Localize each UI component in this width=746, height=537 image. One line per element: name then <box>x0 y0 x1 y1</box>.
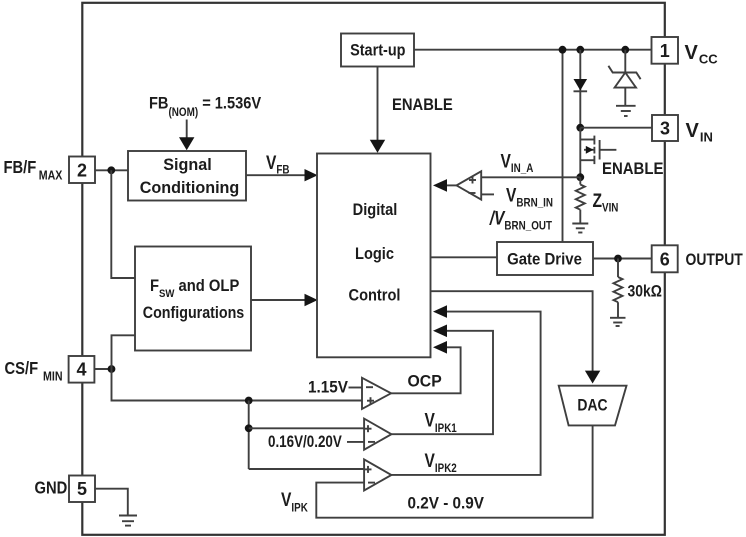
svg-text:GND: GND <box>35 478 68 498</box>
svg-text:30kΩ: 30kΩ <box>628 282 662 301</box>
ground below pin 5 <box>119 516 137 526</box>
node: dot VCC rail / gate drive supply <box>559 46 567 54</box>
wire: pin 3 horizontal <box>580 127 652 129</box>
label /VBRN_OUT <box>489 207 552 233</box>
label VIN_A <box>501 150 534 175</box>
label FB/FMAX <box>4 158 63 183</box>
Gate Drive block <box>497 242 593 275</box>
ground below 30k <box>610 318 626 326</box>
wire: pin4 branch up into FSW box <box>112 335 136 369</box>
svg-text:Signal: Signal <box>163 155 211 174</box>
op-amp U3 (VIPK1 comparator) <box>364 419 391 450</box>
label VIPK2 <box>425 449 457 475</box>
zener diode Z1 <box>608 66 640 105</box>
arrowhead into DLC right edge (VIN comparator) <box>433 179 447 192</box>
FSW and OLP Configurations block <box>135 247 251 351</box>
Digital Logic Control block <box>317 154 431 358</box>
svg-text:Conditioning: Conditioning <box>140 177 240 196</box>
svg-text:Start-up: Start-up <box>350 41 405 59</box>
label 0.16V/0.20V <box>268 432 343 451</box>
wire: DLC to Gate Drive <box>431 256 498 258</box>
arrowhead VIPK2 into DLC right edge <box>433 305 447 318</box>
svg-text:4: 4 <box>76 360 86 380</box>
node: dot pin4 junction <box>108 365 116 373</box>
arrowhead VIPK1 into DLC right edge <box>433 325 447 338</box>
node: dot output / 30k tap <box>614 255 622 263</box>
wire: CS branch down <box>248 401 250 470</box>
wire: pin5 to ground <box>95 489 128 516</box>
op-amp U4 (VIPK2 comparator) <box>364 459 391 490</box>
svg-text:DAC: DAC <box>577 396 607 415</box>
svg-text:OUTPUT: OUTPUT <box>686 251 744 270</box>
wire: diode branch vertical <box>579 50 581 128</box>
wire: comparator output into DLC <box>446 184 457 186</box>
pin 1 box <box>652 37 679 64</box>
wire: ENABLE vertical from Start-up to Digital Logic Control <box>377 67 379 142</box>
DAC block (trapezoid) <box>559 386 627 426</box>
label 30kOhm <box>628 282 662 301</box>
label OCP <box>408 372 442 391</box>
arrowhead ENABLE into DLC top <box>370 140 385 153</box>
wire: VCC top rail from Start-up to pin 1 <box>414 49 652 51</box>
label VIPK <box>281 489 308 515</box>
svg-text:Configurations: Configurations <box>143 304 245 322</box>
wire: 0.16V stub to VIPK1 - input <box>347 441 364 443</box>
outer IC boundary box <box>82 3 665 535</box>
label CS/FMIN <box>5 359 63 384</box>
label VCC <box>685 42 719 67</box>
resistor 30k <box>614 259 623 318</box>
wire: VBRN input stub <box>481 193 494 195</box>
svg-text:ENABLE: ENABLE <box>602 160 664 178</box>
arrowhead VFB into DLC left edge <box>305 169 318 181</box>
node: dot VCC rail / diode branch <box>576 46 584 54</box>
wire: FB(NOM) arrow stem <box>186 120 188 139</box>
wire: pin4 to junction <box>94 368 111 370</box>
wire: VIN_A sense line to comparator <box>481 176 580 178</box>
ground below ZVIN <box>572 224 588 233</box>
arrowhead FSW into DLC left edge <box>305 294 318 306</box>
svg-text:3: 3 <box>660 119 670 139</box>
node: dot pin2 junction <box>107 166 115 174</box>
transistor Q1 (high-voltage MOSFET) <box>580 128 616 178</box>
node: dot CS line junction 1 <box>245 397 253 405</box>
wire: VIPK2 output up into DLC <box>391 312 540 475</box>
wire: Gate Drive output to pin 6 <box>593 258 652 260</box>
arrowhead OCP into DLC right edge <box>433 341 447 354</box>
wire: CS branch to VIPK1 comparator <box>249 427 364 429</box>
pin 4 box <box>69 356 95 383</box>
svg-text:Digital: Digital <box>353 201 398 219</box>
wire: VIPK threshold line from DAC <box>316 425 592 517</box>
label FB(NOM) = 1.536V <box>149 95 261 120</box>
node: dot VCC rail / zener branch <box>621 46 629 54</box>
diode D1 (pointing down) <box>574 79 588 91</box>
label ENABLE (start-up) <box>392 96 453 114</box>
svg-text:ENABLE: ENABLE <box>392 96 453 114</box>
wire: pin2 branch down to FSW box <box>111 170 135 278</box>
op-amp U1 (VIN comparator, points left) <box>457 171 482 199</box>
svg-text:2: 2 <box>77 160 87 180</box>
label ENABLE (mosfet gate) <box>602 160 664 178</box>
label VIN <box>686 120 713 145</box>
wire: DLC to DAC <box>431 291 593 371</box>
wire: CS branch to VIPK2 comparator <box>249 468 364 470</box>
label 1.15V <box>308 378 348 397</box>
svg-text:0.16V/0.20V: 0.16V/0.20V <box>268 432 343 451</box>
pin 2 wire to signal conditioning <box>95 169 128 171</box>
wire: gate-drive supply vertical from VCC rail <box>562 50 564 242</box>
arrowhead into Signal Conditioning top <box>179 137 194 150</box>
wire: VFB output to DLC <box>246 174 307 176</box>
wire: zener branch vertical <box>624 50 626 73</box>
label VBRN_IN <box>506 184 553 210</box>
label OUTPUT <box>686 251 744 270</box>
svg-text:0.2V - 0.9V: 0.2V - 0.9V <box>408 494 485 513</box>
node: dot mosfet source / ZVIN / comparator line <box>576 173 584 181</box>
label GND <box>35 478 68 498</box>
wire: OCP output up into DLC <box>391 347 461 393</box>
wire: FSW output to DLC <box>251 299 307 301</box>
node: dot pin3 / mosfet drain <box>576 124 584 132</box>
svg-text:Control: Control <box>349 287 401 305</box>
wire: 1.15V stub to OCP - input <box>349 387 363 389</box>
svg-text:5: 5 <box>77 479 87 499</box>
Signal Conditioning block <box>128 151 246 201</box>
label ZVIN <box>593 190 619 215</box>
label VIPK1 <box>425 409 457 435</box>
arrowhead into DAC top <box>585 371 600 384</box>
op-amp U2 (OCP comparator) <box>362 378 391 409</box>
wire: CS sense line down and right to OCP comparator <box>112 369 363 401</box>
node: dot CS line junction 2 <box>245 424 253 432</box>
svg-text:OCP: OCP <box>408 372 442 391</box>
ground below zener <box>616 106 636 116</box>
svg-text:Logic: Logic <box>355 245 394 263</box>
svg-text:6: 6 <box>660 249 670 269</box>
label VFB <box>266 151 290 176</box>
svg-text:1.15V: 1.15V <box>308 378 348 397</box>
svg-text:1: 1 <box>660 41 670 61</box>
pin 3 box <box>652 115 678 141</box>
Start-up block <box>341 34 414 67</box>
resistor ZVIN <box>576 177 585 222</box>
pin 6 box <box>652 245 678 272</box>
label 0.2V - 0.9V <box>408 494 485 513</box>
pin 2 box <box>69 157 95 184</box>
wire: VIPK1 output up into DLC <box>391 331 493 434</box>
svg-text:Gate Drive: Gate Drive <box>507 251 582 269</box>
pin 5 box <box>69 476 95 503</box>
